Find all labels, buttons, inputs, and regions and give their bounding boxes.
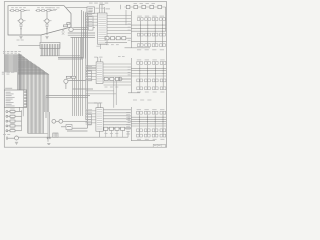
relay B4 bottom: [160, 87, 163, 90]
pin number ticks left of matrix A: [128, 23, 131, 26]
IC U1 pin name text: [6, 91, 11, 94]
buffer U3A: [87, 71, 91, 81]
labels below U4: [105, 132, 108, 135]
IC U1 (CPU): [4, 90, 26, 107]
wire U4 top feed: [88, 102, 101, 104]
label for pin P3: [10, 117, 14, 120]
wire top input row rail: [125, 6, 166, 8]
signal labels left of U3: [86, 65, 93, 68]
wire right rail drop: [165, 7, 167, 31]
labels above matrix A: [137, 15, 141, 18]
wire IC U4 outputs to matrix: [103, 110, 131, 128]
wire Q4 long rail to right section: [19, 136, 129, 138]
label below U2: [97, 45, 100, 48]
wire pin P2 to resistor: [8, 115, 10, 117]
wire bus bottom collector: [28, 133, 48, 135]
relay A3 top: [152, 18, 155, 21]
marks inside L1: [67, 125, 71, 128]
label above IC U2: [96, 7, 99, 10]
matrix B junction dots: [139, 68, 140, 69]
wire base stub cell 2: [44, 20, 46, 22]
wire row y37.4: [71, 36, 96, 38]
wire from mini row down: [125, 10, 127, 25]
relay C3 top: [152, 111, 155, 114]
matrix C pin labels left: [126, 111, 130, 114]
wire L1 row 1: [72, 127, 88, 129]
wire IC U2 top connections: [100, 5, 105, 14]
resistor array U3 R1: [104, 77, 108, 80]
wire row y59: [58, 58, 83, 60]
labels below matrix A: [137, 48, 141, 51]
resistor R23: [47, 10, 50, 12]
resistor R8: [71, 76, 75, 78]
wire Q3 to bus lower: [73, 28, 87, 30]
wire resistor R13 to bus: [15, 120, 22, 122]
connector pin P4: [6, 125, 8, 127]
wire emitter drop cell 1: [20, 23, 22, 28]
relay A3 bottom: [152, 44, 155, 47]
wire C1 to Q4: [8, 137, 15, 139]
resistor array U2 R1: [105, 37, 109, 40]
buffer U2A: [88, 16, 93, 30]
schematic border frame: [4, 2, 166, 148]
label right of U2 top: [106, 7, 111, 10]
transistor Q2: [45, 19, 49, 23]
wire below matrix B: [128, 92, 140, 94]
part number text block (module top right): [48, 6, 51, 9]
wire Q6-Q7 link: [56, 120, 59, 122]
wire stub from driver region to input row: [120, 5, 122, 9]
crossed screw terminals: [62, 29, 65, 35]
wire below matrix A: [125, 47, 151, 49]
relay A1 bottom: [137, 44, 140, 47]
wire pin P4 to resistor: [8, 125, 10, 127]
wire rails down from U3 resistor row: [114, 81, 116, 108]
connector pin P2: [6, 115, 8, 117]
IC U4 internal pin text: [97, 108, 102, 111]
wire through resistor array U4: [103, 128, 131, 130]
signal labels left of U2: [86, 11, 93, 14]
wire transistor Q3 collector: [70, 24, 72, 27]
matrix A column wires: [140, 21, 162, 44]
wire pin P5 to resistor: [8, 130, 10, 132]
relay B1 top: [137, 62, 140, 65]
relay C1 mid: [137, 129, 140, 132]
label for pin P5: [10, 127, 14, 130]
resistor R15: [10, 130, 15, 132]
resistor array U4 R4: [121, 127, 125, 130]
wire row y97.7: [46, 97, 88, 99]
page background: [0, 0, 170, 150]
wire base stub cell 1: [18, 20, 20, 22]
relay C2 mid: [144, 129, 147, 132]
transistor Q1: [19, 19, 23, 23]
resistor R12: [16, 10, 19, 12]
matrix C column wires: [140, 115, 163, 135]
relay B2 top: [145, 62, 148, 65]
wire bus staircase to CPU: [18, 54, 49, 134]
labels above matrix C: [137, 108, 141, 111]
IC U1 right pin marks: [24, 91, 27, 106]
relay A1 mid: [137, 33, 140, 36]
relay B4 mid: [160, 79, 163, 82]
buffer U4A: [88, 114, 92, 125]
wire L1 row 2: [67, 130, 88, 132]
wire rows left of U3 bottom: [86, 91, 116, 94]
resistor R13: [10, 120, 15, 122]
matrix B left rail: [130, 58, 132, 93]
matrix A left rail: [130, 11, 132, 48]
wire top rail cell 2: [36, 10, 53, 12]
relay B4 top: [160, 62, 163, 65]
relay B2 mid: [145, 79, 148, 82]
connector pin P5: [6, 130, 8, 132]
relay A4 top: [160, 18, 163, 21]
labels above matrix B: [137, 59, 141, 62]
label under transistor Q2: [48, 19, 51, 22]
power label specks right: [118, 55, 121, 58]
pin number ticks left of matrix C: [128, 115, 131, 118]
signal name labels row: [3, 50, 6, 53]
resistor array U2 R2: [111, 37, 115, 40]
wire vertical x85.8: [85, 15, 87, 121]
IC U2 (driver): [98, 13, 108, 44]
relay C1 top: [137, 111, 140, 114]
IC U2 internal pin text: [98, 14, 106, 17]
title block: [153, 144, 165, 147]
wire row y35.2: [68, 34, 95, 36]
wire row y57.5: [58, 57, 83, 59]
relay C2 bottom: [144, 134, 147, 137]
wire IC U4 top connections: [98, 103, 101, 108]
relay A2 bottom: [145, 44, 148, 47]
wire resistor R15 to bus: [15, 130, 22, 132]
relay B3 top: [152, 62, 155, 65]
edge connector J1: [40, 42, 60, 48]
pin number ticks left of matrix B: [128, 66, 131, 69]
ground for Q4: [15, 141, 18, 143]
relay A1 top: [137, 18, 140, 21]
value labels for amplifier cell 1: [11, 6, 14, 9]
relay A4 mid: [160, 33, 163, 36]
label under transistor Q1: [22, 19, 25, 22]
resistor R14: [10, 125, 15, 127]
resistor R11: [11, 10, 14, 12]
wire IC U2 outputs to matrix: [107, 16, 131, 34]
value label right cell 2: [52, 9, 56, 12]
wire U4 left input stubs: [85, 111, 96, 123]
wire IC U3 top connections: [98, 57, 101, 62]
wire row y33: [68, 32, 95, 34]
connector pin P1: [6, 111, 8, 113]
capacitor C1: [5, 137, 7, 140]
relay B1 bottom: [137, 87, 140, 90]
value label right cell 1: [26, 9, 30, 12]
relay B3 mid: [152, 79, 155, 82]
input resistor row top right: [126, 5, 130, 8]
resistor array U2 R4: [122, 37, 126, 40]
wire Q5 row to bus: [68, 80, 86, 82]
IC U4 (driver): [96, 108, 103, 132]
wire CPU bottom stub 1: [18, 107, 20, 111]
matrix C bus rows: [131, 117, 166, 126]
resistor array U3 R2: [110, 77, 114, 80]
wire corner x46: [46, 96, 90, 119]
wire collector drop cell 1: [20, 11, 22, 19]
wire through resistor array U2: [105, 37, 131, 39]
relay C2 top: [144, 111, 147, 114]
transistor Q6: [52, 119, 56, 123]
resistor R6: [67, 23, 70, 25]
ground symbol under module cell 1: [19, 36, 22, 38]
wire U3 left inputs: [86, 66, 96, 75]
relay A2 top: [145, 18, 148, 21]
label for pin P4: [10, 122, 14, 125]
diode D1: [47, 137, 51, 139]
wire resistor R12 to bus: [15, 115, 22, 117]
net label block: [2, 71, 5, 74]
wire U4 bottom to rail: [99, 131, 101, 137]
relay A3 mid: [152, 33, 155, 36]
resistor R14 (emitter): [20, 24, 22, 27]
wire collector rail under J1: [40, 55, 80, 57]
wire CPU bottom stub 2: [22, 107, 24, 116]
resistor R7: [66, 76, 70, 78]
resistor R21: [37, 10, 40, 12]
wire IC U3 outputs to matrix: [103, 64, 131, 82]
wire crystal bus vertical pair: [47, 112, 49, 142]
relay A2 mid: [145, 33, 148, 36]
title block text: [154, 144, 156, 147]
signal labels left of U4: [86, 108, 93, 111]
crystal Y1: [53, 133, 58, 137]
labels above input row: [134, 2, 137, 5]
ground under oscillator: [47, 143, 50, 145]
wire bus center verticals: [73, 37, 83, 116]
wire Q3 to bus: [73, 26, 95, 28]
wire U2 top rail: [100, 4, 105, 6]
connector pin P3: [6, 120, 8, 122]
wire below U3: [104, 84, 132, 86]
wire Q7 to right: [63, 120, 88, 122]
wire bus left pin drops: [4, 54, 21, 90]
matrix A bus rows: [131, 25, 166, 41]
pins of edge connector J1: [41, 44, 59, 56]
resistor R24 (emitter): [46, 24, 48, 27]
resistor R5: [64, 25, 68, 27]
resistor R12: [10, 115, 15, 117]
wire Q5 emitter down: [65, 83, 67, 89]
wire L1 left stub: [61, 126, 66, 128]
relay C4 mid: [160, 129, 163, 132]
transistor Q4: [15, 136, 19, 140]
value labels for amplifier cell 2: [37, 6, 40, 9]
resistor R11: [10, 110, 15, 112]
IC U3 internal pin text: [97, 63, 102, 66]
label under module cell 1: [17, 39, 20, 42]
wire below matrix C: [131, 140, 155, 142]
transistor Q7: [59, 119, 63, 123]
matrix C junction dots: [139, 117, 140, 118]
resistor array U4 R2: [109, 127, 113, 130]
resistor R22: [42, 10, 45, 12]
wire U2 bottom stub: [100, 44, 102, 49]
IC U1 inner pin column divider: [23, 90, 25, 107]
label above IC U4: [94, 102, 97, 105]
wire U2 left input stubs: [85, 13, 97, 25]
power net labels top: [89, 2, 93, 5]
relay C4 bottom: [160, 134, 163, 137]
label above IC U3: [94, 56, 97, 59]
wire header rail: [18, 44, 44, 46]
wire bus collecting pin rows: [21, 110, 23, 131]
resistor array U4 R3: [115, 127, 119, 130]
relay B2 bottom: [145, 87, 148, 90]
wire below U2 resistor row: [105, 42, 127, 44]
transistor Q5: [64, 79, 68, 83]
wire to module bottom cell 1: [20, 29, 22, 35]
wire U3 left input stubs: [85, 68, 96, 80]
marks below U2 resistor row: [106, 43, 109, 46]
resistor array U3 R3: [115, 77, 119, 80]
wire pin P1 to resistor: [8, 111, 10, 113]
wire top rail cell 1: [10, 10, 27, 12]
matrix B bus rows: [131, 68, 166, 76]
label above IC U1: [5, 88, 12, 89]
relay A4 bottom: [160, 44, 163, 47]
node junction cell 1: [20, 28, 21, 29]
matrix B column wires: [140, 65, 163, 87]
wire bottom rail to matrix C: [127, 131, 129, 137]
wire resistor R11 to bus: [15, 111, 22, 113]
module outline (top-left analog section): [8, 6, 71, 35]
relay B1 mid: [137, 79, 140, 82]
wire to module bottom cell 2: [46, 29, 48, 35]
labels between matrix B and C: [133, 99, 137, 102]
wire resistor R14 to bus: [15, 125, 22, 127]
transistor U3Q: [118, 77, 122, 81]
wire emitter drop cell 2: [46, 23, 48, 28]
resistor array U2 R3: [116, 37, 120, 40]
relay C3 bottom: [152, 134, 155, 137]
matrix A junction dots: [140, 25, 141, 26]
labels below matrix B: [137, 91, 141, 94]
wire module to filter box: [66, 7, 87, 9]
relay C3 mid: [152, 129, 155, 132]
wire collector drop cell 2: [46, 11, 48, 19]
wire through resistor array U3: [103, 78, 131, 80]
wire module output to J1: [40, 35, 42, 42]
resistor R13: [21, 10, 24, 12]
resistor array U4 R1: [104, 127, 108, 130]
label left of C1: [3, 133, 6, 136]
node junction cell 2: [46, 28, 47, 29]
wire bus down from filter area: [81, 10, 83, 59]
labels below U3: [105, 86, 108, 89]
label for pin P1: [10, 108, 14, 111]
matrix C left rail: [130, 107, 132, 141]
labels below matrix C: [137, 138, 141, 141]
relay B3 bottom: [152, 87, 155, 90]
relay C4 top: [160, 111, 163, 114]
wire row y89: [73, 88, 94, 90]
IC U3 (driver): [96, 62, 103, 84]
relay C1 bottom: [137, 134, 140, 137]
transistor Q3: [69, 27, 73, 31]
inductor box L1: [66, 125, 72, 130]
marks inside filter box U6: [88, 7, 93, 10]
label for pin P2: [10, 112, 14, 115]
filter box U6: [87, 7, 95, 13]
ground symbol under module cell 2: [45, 36, 48, 38]
wire U4 resistor row drops to rail: [106, 130, 123, 137]
wire vertical x87.5: [87, 13, 89, 128]
wire pin P3 to resistor: [8, 120, 10, 122]
